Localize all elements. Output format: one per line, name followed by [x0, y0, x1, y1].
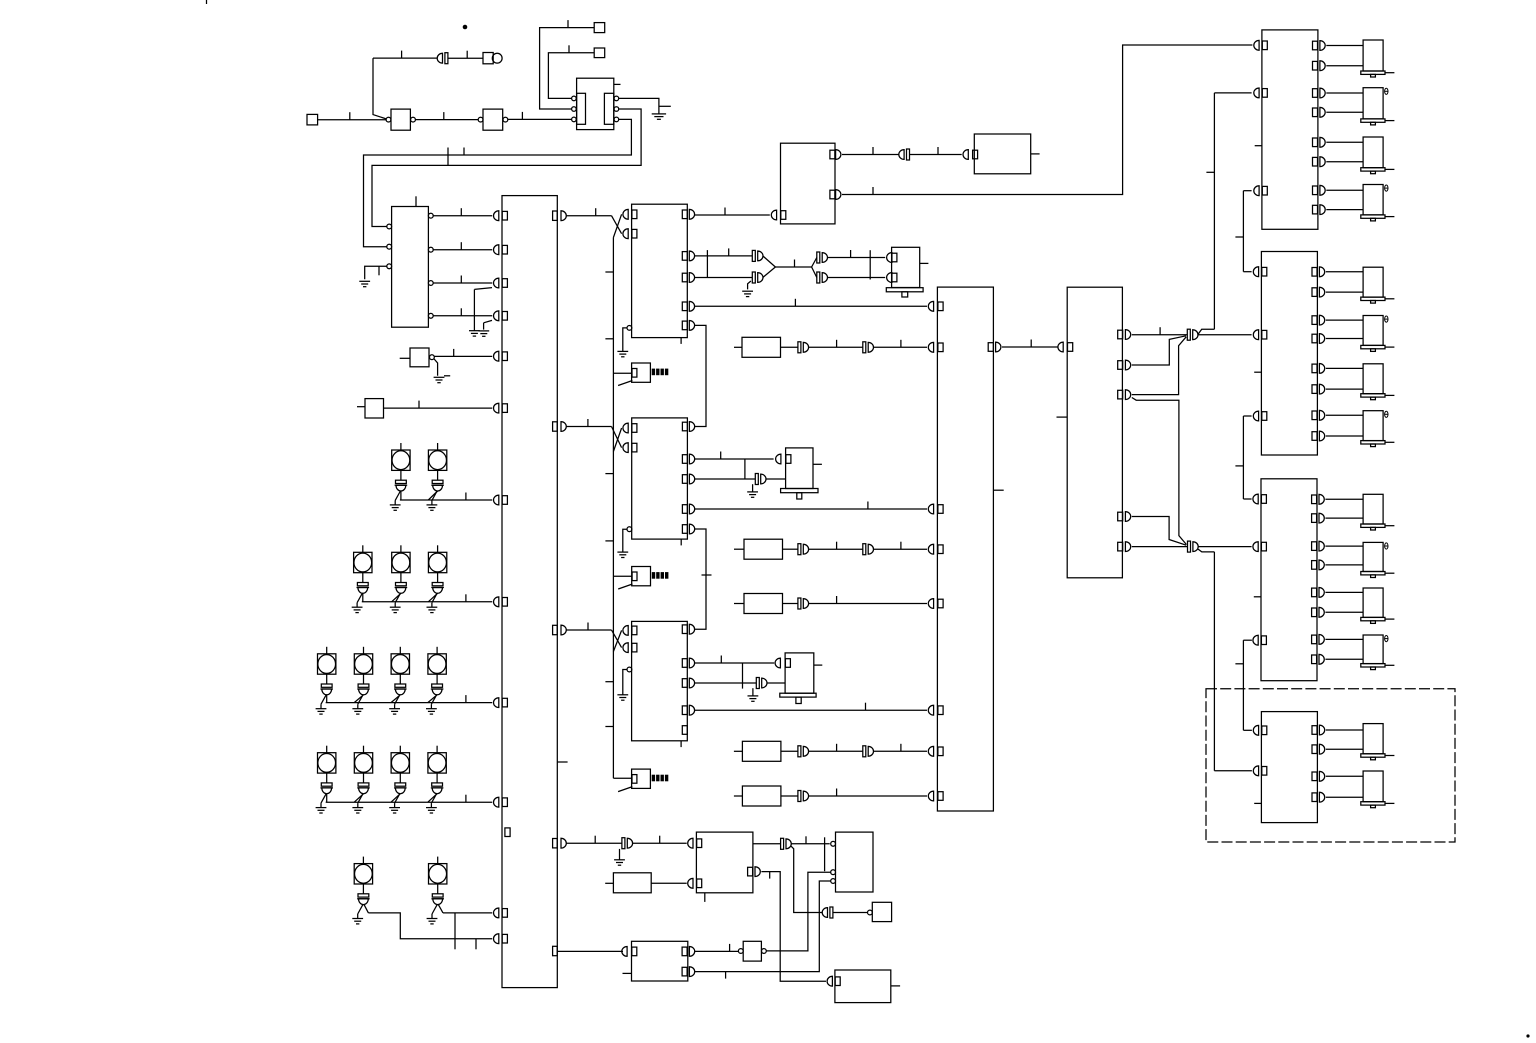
wire U4 row2 to relay M3 [694, 662, 774, 664]
U2 left pin 214 [623, 209, 628, 219]
R2 right pin 320 [1312, 316, 1317, 325]
ground G-K3 [742, 290, 753, 292]
coupler K7 [622, 838, 625, 849]
ground for S1b [432, 491, 437, 500]
wire R3 to relay rows 639/659 [1325, 638, 1363, 640]
coupler R2-k2 [863, 544, 866, 555]
wire R2 to relay rows 271/292 [1326, 271, 1363, 273]
tap S1a to bus wire [400, 491, 402, 500]
R3 right pin 639 [1312, 635, 1317, 644]
IC U1 inner right socket [604, 93, 613, 124]
R1 right pin 142 [1313, 138, 1318, 147]
ground branch K5 [752, 484, 754, 492]
tap S2a to bus wire [362, 593, 364, 602]
junction tie M2 rows [744, 459, 746, 479]
ground for S1a [395, 491, 400, 500]
coupler R4-k1 [798, 746, 801, 757]
buffer box B1 [400, 357, 410, 359]
tap S4b to bus wire [354, 794, 363, 803]
tick on U3-U4 link [702, 574, 712, 576]
ground for S5b [432, 905, 437, 914]
U2 left pin 233 [623, 229, 628, 239]
wire X1 to D5 [557, 950, 623, 952]
spine tick 726.5 [605, 726, 613, 728]
bus X2 connector row 549 [928, 544, 933, 554]
branch N2 tail down to R5 row2 [1198, 549, 1215, 552]
chain vertical segment 1 [1242, 191, 1244, 272]
connector into D1 row883 [688, 878, 693, 888]
U2 right pin 325 [682, 321, 687, 330]
connector into D3 [827, 976, 832, 986]
D1 bottom tick [704, 893, 706, 902]
relay load at 267 [1363, 267, 1383, 297]
relay load at 494 [1363, 494, 1383, 524]
push-button S4c [399, 746, 401, 753]
ground for S4c [395, 794, 400, 803]
bus X1 right pin row 630 [553, 625, 558, 634]
C1 right pin row 154 [830, 150, 835, 159]
wire link into R1 row2 [1214, 92, 1251, 94]
wire R2 to relay rows 320/338 [1326, 319, 1363, 321]
box C1 [781, 143, 836, 224]
wire U1 out3 to box A pin2 [364, 119, 632, 246]
wire link into R5 row2 [1214, 770, 1252, 772]
switch SW2 [632, 567, 651, 586]
wire U4 row4 to bus X2 [694, 709, 927, 711]
wire box D5 to nand N3 [695, 950, 739, 952]
wire R2 out [783, 548, 798, 550]
R2 left stub [1254, 371, 1261, 373]
wire R6 to D1 [651, 882, 687, 884]
ground branch from row3 connector [474, 288, 492, 290]
box D2 bubble1 [831, 841, 836, 846]
wire U2 row2 [694, 255, 752, 257]
push-button S2b [400, 545, 402, 552]
wire X1 to IC3 crossover [566, 629, 612, 631]
push-button S4a [326, 746, 328, 753]
X3 right pin row 334 [1118, 330, 1123, 339]
relay M1 [892, 247, 920, 287]
bus X1 connector row 938 [493, 934, 498, 944]
bus box X1 [502, 196, 557, 988]
R3 left stub [1254, 596, 1261, 598]
wire J2 to U1 pin2 [540, 28, 595, 109]
wire box A out3 to bus X1 [433, 282, 492, 284]
connector box R2 [1261, 252, 1317, 456]
push-button S4d [436, 746, 438, 753]
tap S4c to bus wire [391, 794, 400, 803]
R3 right pin 592 [1312, 588, 1317, 597]
R5 left stub [1254, 802, 1261, 804]
relay load at 87 [1363, 88, 1383, 119]
tap S3b to bus wire [354, 695, 363, 703]
R3 left connector 499 [1253, 494, 1258, 504]
wire R2 to relay rows 368/389 [1326, 367, 1363, 369]
X3 left stub [1057, 416, 1068, 418]
ground G-B1 [434, 376, 445, 378]
R1 right pin 190 [1313, 186, 1318, 195]
bus X1 right pin row 951 [553, 946, 558, 955]
relay load at 410 [1363, 411, 1383, 441]
wire box A out4 to bus X1 [433, 315, 492, 317]
R1 right pin 65 [1313, 61, 1318, 70]
tap S3a to bus wire [326, 695, 328, 703]
R2 left connector 416 [1253, 411, 1258, 421]
U2 right pin 277 [682, 273, 687, 282]
ground G-K7 [614, 859, 625, 861]
coupler K4a [817, 252, 820, 263]
label text for SW2 [652, 572, 655, 579]
ground G-U4 [617, 694, 628, 696]
coupler K2 [899, 150, 904, 160]
chain jog to R1 row3 [1243, 190, 1251, 192]
R5 left connector 770 [1253, 766, 1258, 776]
box D2 [836, 832, 874, 892]
bus X2 connector row 751 [928, 746, 933, 756]
bus X1 connector pin row 215.7 [493, 211, 498, 221]
D5 left stub [623, 972, 632, 974]
relay load at 771 [1363, 771, 1383, 802]
relay M2 [786, 448, 813, 489]
coupler K6 [756, 678, 759, 689]
box D5 [632, 941, 688, 981]
K8 tail branch to coupler K9 [791, 846, 823, 912]
spine tick 473.6 [605, 473, 613, 475]
chain jog to R3 row1 [1243, 498, 1251, 500]
R5 left connector 730 [1253, 725, 1258, 735]
wire X3 row334 to nand N1 [1132, 334, 1188, 336]
wire R4 mid [808, 750, 862, 752]
branch stub on S5b wire [454, 913, 456, 949]
relay load at 184 [1363, 185, 1383, 215]
wire R3 to relay rows 592/612 [1325, 591, 1363, 593]
vertical link to R1 row2 [1213, 93, 1215, 329]
wire box A out2 to bus X1 [433, 249, 492, 251]
wire top row to opto [373, 57, 437, 59]
coupler K3a [752, 250, 755, 261]
R1 right pin 112 [1313, 108, 1318, 117]
bus X2 connector row 347 [928, 342, 933, 352]
tap S3c to bus wire [391, 695, 400, 703]
wire R4 out [781, 750, 798, 752]
R1 right pin 209 [1313, 205, 1318, 214]
tick on S5a wire [475, 939, 477, 950]
chevron merge [763, 256, 776, 267]
wire X3 row365 bend to N1 [1132, 336, 1186, 365]
U3 right pin 459 [682, 455, 687, 464]
junction tie at M1 [869, 250, 871, 279]
relay load at 635 [1363, 635, 1383, 664]
IC U1 inner left socket [577, 93, 586, 124]
X3 right pin row 394 [1118, 390, 1123, 399]
IC U1 right bubbles [614, 96, 619, 101]
lamp box with circle [483, 53, 493, 64]
R2 right pin 415 [1312, 411, 1317, 420]
U2 right pin 214 [682, 210, 687, 219]
R5 right pin 776 [1312, 772, 1317, 781]
resistor R3 [734, 603, 744, 605]
push-button S5a [362, 857, 364, 864]
R5 right pin 730 [1312, 726, 1317, 735]
chain jog to R2 row1 [1243, 271, 1251, 273]
coupler R5-k1 [798, 791, 801, 802]
inverter G1 [386, 117, 391, 122]
X3 right pin row 546 [1118, 542, 1123, 551]
R5 right pin 749 [1312, 745, 1317, 754]
label text for SW1 [652, 369, 655, 376]
wire D1 down to box D3 [761, 872, 826, 982]
inverter G2 [478, 117, 483, 122]
wire U3 row3 [694, 478, 755, 480]
bus X1 right pin row 426 [553, 422, 558, 431]
ground branch K3b [748, 281, 751, 289]
chain jog to R5 row1 [1243, 729, 1252, 731]
ground G-K6 [748, 695, 759, 697]
wire R1 to relay rows 190/209 [1326, 189, 1363, 191]
wire R1 to relay rows 93/112 [1326, 92, 1363, 94]
wire N2 out to connector R3 row2 [1198, 546, 1252, 548]
wire U2 row4 to bus X2 [694, 305, 927, 307]
bus box X2 [937, 287, 993, 811]
ground G-U1 [659, 105, 671, 107]
ground G-U2 [617, 350, 628, 352]
chevron split [812, 258, 817, 268]
R1 left stub [1255, 145, 1262, 147]
crossover diagonals at IC1 [612, 216, 622, 234]
R2 right pin 338 [1312, 334, 1317, 343]
wire K5 to relay M2 [766, 478, 786, 480]
U3 enable bubble and ground [627, 527, 632, 532]
wire X3 row546 to nand N2 [1132, 546, 1188, 548]
box A top tick [415, 196, 417, 206]
tick on bus wires [447, 148, 449, 166]
relay load at 137 [1363, 137, 1383, 168]
crossover diagonals at IC3 [612, 630, 622, 648]
wire R5 out [781, 795, 798, 797]
wire U3 row2 to relay M2 [694, 458, 773, 460]
terminal square J2 [594, 23, 605, 33]
spine tick 681.7 [605, 681, 613, 683]
box A right bubbles [428, 213, 433, 218]
IC U3 body [632, 418, 688, 539]
wire box A out1 to bus X1 [433, 215, 492, 217]
wire G2 to IC U1 [508, 118, 572, 120]
box D4 bubble [868, 910, 873, 915]
D1 right pin row 872 [748, 867, 753, 876]
connector into C2 [963, 150, 968, 160]
box D3 [835, 970, 891, 1003]
box D2 bubble3 wire from D5 row2 [831, 879, 836, 884]
coupler R4-k2 [863, 746, 866, 757]
coupler R1-k1 [798, 342, 801, 353]
connector box R3 [1261, 479, 1317, 681]
wire K4b to relay M1 [827, 277, 885, 279]
wire K1 to lamp [448, 57, 483, 59]
wire X1 to IC1 crossover [566, 215, 612, 217]
bus X1 connector pin row 249.7 [493, 245, 498, 255]
X2 right stub row 490 [993, 489, 1003, 491]
box D2 bubble2 wire from nand N3 [831, 870, 836, 875]
push-button S1a [400, 443, 402, 450]
button bus wire row 4 [326, 801, 493, 803]
chain jog from R2 row3 [1243, 415, 1251, 417]
branch N1 up to R1 row2 [1198, 329, 1215, 335]
box D4 [872, 902, 891, 921]
IC U1 left bubbles [572, 96, 577, 101]
bus X2 connector row 509 [928, 504, 933, 514]
switch SW1 [632, 363, 651, 382]
bus box X3 [1067, 287, 1122, 578]
button bus wire row 1 [400, 499, 492, 501]
wire R5 to relay rows 776/797 [1326, 775, 1363, 777]
connector into D1 [688, 838, 693, 848]
bus X2 connector row 796 [928, 791, 933, 801]
spine vertical bus [612, 238, 614, 779]
wire U4 row3 [694, 682, 756, 684]
relay load at 315 [1363, 316, 1383, 346]
ground for S2c [432, 593, 437, 602]
U3 right pin 479 [682, 475, 687, 484]
bus X1 right stub row 762 [557, 761, 567, 763]
wire G1 to gate G2 [415, 119, 478, 121]
C1 right pin row 194 [830, 190, 835, 199]
R3 left connector 546 [1253, 542, 1258, 552]
tap S3d to bus wire [428, 695, 437, 703]
U4 left pin 630 [623, 626, 628, 636]
coupler R2-k1 [798, 544, 801, 555]
X3 right pin row 365 [1118, 361, 1123, 370]
ground for S5a [358, 905, 363, 914]
stray mark top [206, 0, 208, 4]
relay load at 723 [1363, 724, 1383, 754]
wire R1 to X2 [873, 346, 927, 348]
wire J3 to U1 pin1 [548, 53, 594, 99]
wire U3 row4 to bus X2 [694, 508, 927, 510]
bus X1 connector row 802 [493, 797, 498, 807]
wire R1 out [781, 346, 798, 348]
nand N2 caps and D [1188, 541, 1191, 552]
stub vertical crossing [824, 837, 826, 871]
resistor R5 [734, 795, 743, 797]
connector M2 top [776, 454, 781, 464]
bus X2 connector row 710 [928, 705, 933, 715]
wire X1 row843 to coupler K7 [566, 842, 622, 844]
wire X1 to IC2 crossover [566, 426, 612, 428]
coupler K3b [752, 272, 755, 283]
coupler R1-k2 [863, 342, 866, 353]
ground G-A [359, 280, 370, 282]
tap S2b to bus wire [392, 593, 401, 602]
resistor R6 [605, 882, 613, 884]
wire N1 out to connector R2 row2 [1198, 334, 1252, 336]
chain jog from R3 row3 [1243, 639, 1252, 641]
wire D1 right to coupler K8 [753, 843, 781, 845]
R1 left connector 45 [1254, 40, 1259, 50]
wire S5a route to bus [367, 938, 369, 940]
resistor R1 [734, 346, 742, 348]
D5 right pin row 971 [682, 967, 687, 976]
coupler K4b [817, 272, 820, 283]
wire R1 to relay rows 142/161 [1326, 141, 1363, 143]
wire R2 mid [808, 548, 862, 550]
relay load at 40 [1363, 40, 1383, 71]
R3 right pin 546 [1312, 542, 1317, 551]
resistor R4 [734, 750, 743, 752]
connector box R5 [1261, 712, 1317, 823]
wire R3 to relay rows 499/518 [1325, 498, 1363, 500]
push-button S4b [363, 746, 365, 753]
bus X1 connector row 356 [493, 351, 498, 361]
spine branch to switch SW3 [613, 777, 632, 779]
U2 right pin 255 [682, 252, 687, 261]
tick on bus wire 2 [463, 148, 465, 156]
wire U2 row1 to box C1 [694, 214, 770, 216]
bus X3 connector row 347 [1058, 342, 1063, 352]
connector box R1 [1262, 30, 1318, 229]
R2 left connector 271 [1253, 267, 1258, 277]
wire K8 to box D2 pin1 [791, 843, 830, 845]
wire R2 to X2 [873, 548, 927, 550]
U3 bottom tick [680, 539, 682, 545]
nand N1 caps and D [1187, 329, 1190, 340]
connector M3 top [775, 658, 780, 668]
R2 right pin 368 [1312, 364, 1317, 373]
U4 bottom tick [680, 741, 682, 747]
U2 right pin 306 [682, 302, 687, 311]
X3 row394 tail down [1132, 398, 1187, 545]
box A left bubbles [387, 224, 392, 229]
wire B2 to bus X1 [384, 407, 493, 409]
push-button S2c [437, 545, 439, 552]
R1 right pin 161 [1313, 157, 1318, 166]
ground G-R3 [469, 330, 480, 332]
wire U3 row5 down to U4 row1 [694, 529, 706, 629]
coupler R3-k1 [798, 598, 801, 609]
wire B1 to bus X1 [434, 355, 492, 357]
R3 left connector 640 [1253, 635, 1258, 645]
relay load at 363 [1363, 364, 1383, 394]
wire U1 out1 to ground [619, 98, 659, 113]
wire R5 to X2 [808, 795, 927, 797]
wire U2 row5 down to U3 row1 [694, 325, 706, 426]
IC U1 outer box [577, 78, 614, 129]
bus X1 spare pin row 829 [505, 828, 510, 837]
wire R3 to relay rows 546/564 [1325, 545, 1363, 547]
U3 left pin 428 [623, 423, 628, 433]
push-button S1b [437, 443, 439, 450]
bus X2 connector row 603 [928, 599, 933, 609]
U4 right pin 730 [682, 726, 687, 735]
push-button S2a [362, 545, 364, 552]
spine branch to switch SW2 [613, 575, 632, 577]
junction tie rows 2-3 [706, 250, 708, 277]
push-button S3b [363, 647, 365, 654]
spine tick 338.8 [605, 338, 613, 340]
wire K6 to relay M3 [767, 682, 785, 684]
dashed option frame [1206, 689, 1455, 842]
tap S5b to wire [438, 904, 443, 913]
relay M3 [785, 653, 814, 693]
tap S4a to bus wire [326, 794, 328, 803]
push-button S3c [399, 647, 401, 654]
bus X1 connector row 601 [494, 597, 499, 607]
ground G-K5 [747, 491, 758, 493]
bus X1 connector row 702 [493, 698, 498, 708]
button bus wire row 3 [326, 702, 493, 704]
U4 enable bubble and ground [627, 667, 632, 672]
spine tick 272 [605, 271, 613, 273]
bus X2 connector row 306 [928, 301, 933, 311]
